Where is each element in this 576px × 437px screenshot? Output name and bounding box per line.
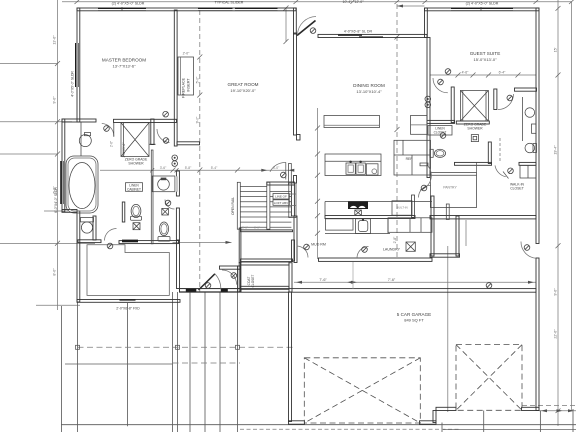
west wall lower wing bbox=[77, 211, 80, 302]
hall wall west of pantry bbox=[456, 216, 459, 256]
corner glass door dining (diagonal) bbox=[297, 21, 316, 36]
window master west bbox=[75, 43, 76, 87]
svg-text:BUILT-IN: BUILT-IN bbox=[396, 206, 407, 210]
vertical dim x286 bbox=[285, 8, 287, 42]
garage south step bbox=[433, 411, 436, 423]
vestibule east wall bbox=[238, 266, 241, 292]
svg-text:2'-8": 2'-8" bbox=[393, 236, 397, 244]
door arc kitchen to guest hall bbox=[419, 185, 431, 197]
horiz dim left y305 bbox=[36, 304, 80, 306]
under-stair room walls bbox=[241, 230, 293, 232]
entry south wall bbox=[180, 289, 242, 292]
arrows garage dim y282 bbox=[296, 5, 574, 413]
guest suite north wall bbox=[425, 8, 540, 11]
left dimension line bbox=[57, 0, 59, 310]
coat closet walls bbox=[241, 262, 290, 265]
south wall west wing bbox=[77, 300, 180, 303]
right dimension line inner bbox=[557, 0, 559, 426]
broom cabinet box bbox=[326, 219, 354, 230]
pantry room bbox=[430, 173, 476, 208]
guest hall south wall bbox=[427, 120, 455, 123]
kitchen south wall band bbox=[325, 216, 415, 219]
window master top bbox=[98, 8, 146, 9]
horiz dim left y154 bbox=[0, 153, 58, 155]
short dim y6 dining bbox=[397, 5, 425, 7]
door arc master closet bbox=[157, 129, 170, 143]
horiz dim left y243 bbox=[0, 243, 95, 245]
svg-text:8'-0": 8'-0" bbox=[53, 268, 57, 276]
garage east / house east wall bbox=[536, 8, 539, 244]
svg-text:CLOSET: CLOSET bbox=[251, 275, 255, 288]
svg-text:4'-0"X5'-0" SLDR: 4'-0"X5'-0" SLDR bbox=[71, 71, 75, 97]
guest closet wall bbox=[451, 87, 454, 123]
closet WC west wall bbox=[122, 202, 125, 222]
window south wing bbox=[120, 299, 136, 300]
WC room east wall bbox=[93, 216, 96, 240]
svg-text:MASTER BEDROOM: MASTER BEDROOM bbox=[102, 58, 146, 63]
svg-text:6'-4": 6'-4" bbox=[499, 71, 507, 75]
svg-text:OPEN RAIL: OPEN RAIL bbox=[231, 197, 235, 215]
garage door dashed box right bbox=[456, 345, 522, 411]
svg-text:TYPICAL SLIDER: TYPICAL SLIDER bbox=[215, 1, 244, 5]
oven box below cooktop bbox=[355, 210, 362, 215]
guest shower surround bottom bbox=[456, 121, 489, 124]
window great room top 2 bbox=[235, 8, 278, 9]
site line x127.5 bbox=[127, 303, 129, 426]
garage west wall bbox=[289, 292, 292, 422]
svg-text:MUD RM: MUD RM bbox=[311, 243, 326, 247]
hall west wall (powder) bbox=[176, 171, 179, 196]
stairwell right wall bbox=[291, 185, 294, 216]
built-in cabinet right of cooktop bbox=[392, 201, 412, 215]
master shower box bbox=[121, 123, 149, 157]
vertical dim x317.5 kitchen bbox=[317, 108, 319, 259]
kitchen island upper bbox=[324, 116, 380, 128]
vertical dim x397 dashed bbox=[396, 4, 398, 258]
svg-text:13'-10"X10'-4": 13'-10"X10'-4" bbox=[356, 89, 382, 94]
walkway line x220 bbox=[219, 292, 221, 432]
svg-text:9'-0": 9'-0" bbox=[195, 116, 199, 124]
svg-text:2'-8"X5'-0": 2'-8"X5'-0" bbox=[122, 143, 126, 158]
walkway line x190 bbox=[189, 292, 191, 432]
site line left x77.5 bbox=[77, 303, 79, 433]
svg-text:4'-6": 4'-6" bbox=[462, 71, 470, 75]
svg-text:22'-6": 22'-6" bbox=[554, 329, 558, 339]
walkway line x205 bbox=[204, 292, 206, 432]
svg-text:4'-0"X6'-8" SL DR: 4'-0"X6'-8" SL DR bbox=[344, 30, 373, 34]
svg-text:5'-4": 5'-4" bbox=[211, 166, 218, 170]
svg-text:5 CAR GARAGE: 5 CAR GARAGE bbox=[397, 312, 431, 317]
master WC toilet bbox=[81, 218, 94, 222]
svg-text:LAUNDRY: LAUNDRY bbox=[383, 248, 401, 252]
horiz dim left y121 bbox=[0, 121, 72, 123]
south cabinets band bbox=[325, 233, 390, 235]
linen cabinet box bbox=[126, 183, 143, 192]
door arc guest suite entry bbox=[433, 78, 448, 93]
master WC niche symbol bbox=[133, 223, 140, 230]
svg-text:INSERT: INSERT bbox=[187, 78, 191, 92]
stair center rail bbox=[267, 182, 270, 229]
svg-text:7'-6": 7'-6" bbox=[319, 278, 327, 282]
stair treads left bbox=[240, 186, 266, 227]
bottom dimension line bbox=[61, 424, 576, 426]
walkway line x172.5 bbox=[172, 292, 174, 432]
svg-text:REF: REF bbox=[406, 157, 413, 161]
horiz dim left y211 bbox=[44, 210, 68, 212]
right cabinets band bbox=[388, 218, 432, 233]
master vanity edge bbox=[80, 122, 82, 156]
svg-text:15': 15' bbox=[554, 47, 558, 52]
door symbols (circle with slash) bbox=[104, 28, 530, 289]
vertical dim x199 dashed bbox=[199, 10, 201, 292]
garage dim line y282 bbox=[294, 281, 536, 283]
master closet wall right of shower bbox=[151, 119, 154, 145]
slider dining north bbox=[338, 35, 362, 36]
dining east vertical to guest wall bbox=[425, 8, 428, 38]
WC toilet bbox=[131, 204, 141, 217]
svg-text:19'-10"X20'-0": 19'-10"X20'-0" bbox=[230, 88, 256, 93]
svg-text:FIREPLACE: FIREPLACE bbox=[182, 77, 186, 98]
solid line y364 bbox=[65, 363, 173, 365]
svg-text:3'-0": 3'-0" bbox=[254, 226, 260, 230]
dashed utility line y347 bbox=[78, 346, 296, 348]
window bath west bbox=[60, 161, 61, 204]
svg-text:(2) 4'-0"X5'-0" SLDR: (2) 4'-0"X5'-0" SLDR bbox=[112, 2, 145, 6]
svg-text:SHOWER: SHOWER bbox=[467, 127, 483, 131]
interior: master/great divider bbox=[174, 10, 177, 146]
inner entry door arc bbox=[222, 270, 237, 285]
fireplace box bbox=[178, 57, 194, 95]
exterior top wall master/great bbox=[77, 8, 296, 11]
guest shower west wall bbox=[494, 89, 497, 110]
top dimension line bbox=[62, 1, 572, 3]
master tub bbox=[69, 163, 95, 209]
dining west wall upper bbox=[294, 33, 297, 135]
tall cabinets / ref wall bbox=[394, 140, 431, 175]
porch divider wall bbox=[78, 240, 101, 243]
svg-text:SHOWER: SHOWER bbox=[128, 162, 144, 166]
utility squares on y347 bbox=[76, 345, 80, 349]
counter edge line bbox=[325, 201, 432, 203]
dishwasher bbox=[366, 164, 378, 175]
interior dim guest y75 bbox=[430, 74, 536, 76]
bath north wall + step bbox=[62, 119, 96, 122]
svg-text:12'-0": 12'-0" bbox=[355, 0, 365, 4]
svg-text:LOFT ABV: LOFT ABV bbox=[274, 201, 288, 205]
svg-text:2'-0"X6'-8" FXD: 2'-0"X6'-8" FXD bbox=[116, 307, 140, 311]
svg-text:9'-6": 9'-6" bbox=[554, 288, 558, 296]
svg-text:5'-0": 5'-0" bbox=[195, 76, 199, 84]
svg-text:3'-6": 3'-6" bbox=[160, 166, 167, 170]
dim ext x466 bbox=[465, 220, 467, 246]
mud west wall bbox=[292, 240, 295, 261]
door arc house side entry right wall bbox=[521, 242, 536, 259]
guest vanity bbox=[522, 97, 524, 141]
island sinks bbox=[346, 163, 355, 174]
porch east wall bbox=[177, 240, 180, 289]
door arc powder bbox=[165, 200, 175, 210]
door arc stair top bbox=[270, 162, 286, 171]
entry door leaf+arc bbox=[199, 274, 215, 290]
upper right cabinets bbox=[411, 116, 428, 135]
stair treads right bbox=[270, 192, 292, 228]
WC south wall w/ cap bbox=[119, 241, 179, 244]
walkway line x237.5 bbox=[237, 292, 239, 432]
entry door sills bbox=[186, 289, 197, 292]
guest suite south wall right part bbox=[515, 88, 537, 91]
guest hall toilet bbox=[430, 149, 433, 157]
kitchen/mud south wall bbox=[319, 258, 433, 261]
svg-text:19'-4": 19'-4" bbox=[554, 145, 558, 155]
master sink bbox=[79, 135, 91, 147]
svg-text:2'-0": 2'-0" bbox=[183, 52, 191, 56]
bottom dashed apron line bbox=[240, 428, 460, 430]
svg-text:13'-6": 13'-6" bbox=[53, 35, 57, 45]
guest wing west wall (hall) bbox=[427, 38, 430, 178]
dining buffet bbox=[289, 183, 296, 218]
site line left x61.5 bbox=[61, 306, 63, 432]
powder toilet bbox=[158, 237, 170, 242]
entry north stub wall bbox=[220, 266, 241, 269]
door arc WIC bbox=[495, 165, 506, 176]
door arc WC bbox=[105, 229, 117, 241]
powder vanity bbox=[152, 176, 175, 192]
dashed segment y363 right bbox=[173, 362, 241, 364]
stair left rail bbox=[237, 182, 240, 229]
svg-text:CLOSET: CLOSET bbox=[510, 187, 524, 191]
west wall master bath bay bbox=[62, 119, 65, 212]
svg-text:5'-8": 5'-8" bbox=[185, 166, 192, 170]
washer box bbox=[406, 242, 415, 251]
svg-text:DINING ROOM: DINING ROOM bbox=[353, 83, 385, 88]
right dimension line outer bbox=[571, 2, 573, 411]
stairwell top wall bbox=[267, 182, 295, 185]
svg-text:GREAT ROOM: GREAT ROOM bbox=[228, 82, 259, 87]
svg-text:13'-7"X13'-6": 13'-7"X13'-6" bbox=[112, 64, 136, 69]
powder room west wall bbox=[151, 150, 153, 244]
svg-text:7'-6": 7'-6" bbox=[388, 278, 396, 282]
svg-text:849 SQ FT: 849 SQ FT bbox=[404, 318, 424, 323]
svg-text:6'-0": 6'-0" bbox=[53, 186, 57, 194]
south sink cabinet bbox=[356, 219, 371, 234]
window guest top bbox=[451, 8, 513, 9]
garage dim arrows y410 bbox=[539, 410, 576, 412]
svg-text:LINE OF: LINE OF bbox=[275, 195, 287, 199]
garage south wall left bbox=[289, 421, 305, 424]
dining north wall w/ slider bbox=[318, 34, 427, 37]
master tub surround bbox=[66, 156, 98, 213]
hall closet wall + arc bbox=[420, 163, 428, 166]
cooktop bbox=[348, 201, 368, 209]
mud room door arcs bbox=[297, 246, 309, 258]
porch inner outline bbox=[87, 245, 169, 296]
svg-text:3'-0": 3'-0" bbox=[273, 166, 280, 170]
garage / house south long wall bbox=[180, 289, 537, 293]
wall kitchen/laundry bbox=[412, 195, 415, 217]
svg-text:9'-0": 9'-0" bbox=[53, 96, 57, 104]
door arc master bath bbox=[102, 124, 114, 137]
walkway line x177.5 bbox=[177, 292, 179, 432]
vertical dim x500 guest bath bbox=[499, 138, 501, 161]
svg-text:GUEST SUITE: GUEST SUITE bbox=[470, 51, 501, 56]
svg-text:10'-4": 10'-4" bbox=[343, 0, 353, 4]
powder niche symbol bbox=[162, 208, 169, 215]
svg-text:3'-0": 3'-0" bbox=[242, 226, 248, 230]
svg-text:PANTRY: PANTRY bbox=[443, 186, 457, 190]
kitchen island lower bbox=[325, 154, 381, 176]
window great room top 1 bbox=[198, 8, 233, 9]
svg-text:15'-0"X13'-0": 15'-0"X13'-0" bbox=[473, 57, 497, 62]
guest shower box bbox=[460, 91, 488, 122]
svg-text:(2) 4'-0"X5'-0" SLDR: (2) 4'-0"X5'-0" SLDR bbox=[466, 2, 499, 6]
step back south of bay bbox=[62, 210, 77, 213]
west wall master bedroom bbox=[77, 8, 80, 122]
driveway line x540.4 bbox=[539, 411, 541, 433]
linen closet box bbox=[428, 126, 452, 136]
vertical dim x448 garage bbox=[447, 246, 449, 412]
interior dim hall y170 bbox=[100, 169, 294, 171]
horiz dim left y63 bbox=[0, 63, 58, 65]
driveway line x483.7 bbox=[483, 411, 485, 433]
door arc guest bath bbox=[498, 94, 514, 110]
guest bath south wall bbox=[455, 162, 492, 165]
hall south wall segment bbox=[177, 142, 200, 145]
guest bath symbol bbox=[471, 135, 478, 142]
dining corner wall down from great room bbox=[294, 8, 297, 34]
svg-text:CABINET: CABINET bbox=[127, 187, 141, 191]
svg-text:2'-6": 2'-6" bbox=[110, 141, 114, 147]
stair label boxes bbox=[273, 194, 289, 200]
interior dim hall y242 bbox=[173, 241, 232, 243]
garage door dashed box left bbox=[304, 358, 420, 423]
